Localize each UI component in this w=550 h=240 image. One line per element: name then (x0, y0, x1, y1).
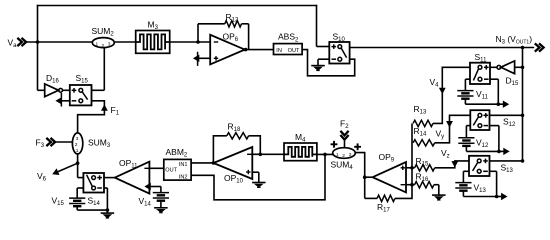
wire OP11 plus input with arrow (144, 183, 161, 190)
wire V14 to ground (160, 201, 162, 208)
wire OP9 plus to R15 (406, 167, 415, 169)
wire OP9 output stub (365, 176, 373, 178)
wire S12 output to rail (490, 114, 523, 116)
wire R16 to ground (434, 185, 439, 195)
node N3 (Vout1) output (496, 34, 544, 52)
wire ABM2 IN2 loop to M4 output (191, 155, 325, 200)
wire right rail (522, 48, 524, 161)
wire rail drop to S10 (317, 5, 330, 47)
wire ABM2 out to OP11 (149, 167, 163, 169)
node junction OP9 inverting (410, 183, 414, 187)
wire S13 output to rail (490, 160, 523, 162)
svg-text:IN2: IN2 (179, 174, 188, 180)
svg-text:2: 2 (342, 153, 345, 159)
wire S14 lower output to ground (104, 188, 107, 213)
wire F2 to SUM4 (344, 140, 346, 148)
summer SUM2 (92, 26, 115, 49)
memristor M4 (284, 132, 317, 161)
multiplier ABM2 (164, 147, 191, 181)
op-amp U OP9 (373, 152, 406, 192)
wire V15 to ground (77, 206, 107, 210)
node F3 input (36, 138, 56, 150)
ground S14 (101, 213, 115, 218)
battery V12 (458, 138, 489, 150)
wire SUM3 node to S14 (78, 177, 84, 179)
wire OP9 inverting to R16 (406, 184, 415, 186)
wire S12 lower output down (490, 126, 499, 152)
wire S11 to battery V11 (465, 79, 470, 90)
wire S10 minus to ground (318, 59, 329, 65)
wire S13 to battery V13 (463, 171, 469, 182)
svg-text:IN: IN (276, 48, 282, 54)
ground S10 (311, 66, 325, 71)
wire S15 minus stub with arrow (55, 93, 69, 107)
resistor R17 (365, 185, 412, 214)
battery V15 (52, 196, 86, 208)
ground V14 (154, 208, 168, 213)
wire D15 to rail (515, 66, 523, 68)
op-amp U OP11 (115, 158, 150, 194)
node junction M3 output (196, 40, 200, 44)
svg-text:IN1: IN1 (179, 162, 188, 168)
summer SUM3 (72, 133, 110, 154)
diode D15 (497, 61, 519, 87)
switch S11 (470, 52, 490, 84)
svg-text:1: 1 (336, 152, 339, 158)
wire R13 to S11 (V4) (433, 67, 470, 123)
resistor R15 (415, 156, 435, 171)
node junction V6 (76, 161, 80, 165)
node junction OP9 output (363, 175, 367, 179)
wire OP6 noninverting stub with arrow (193, 52, 210, 66)
wire OP11 plus to battery V14 (160, 187, 162, 193)
node V11 arrow marker (498, 101, 509, 108)
wire V13 to arrow node (463, 191, 496, 197)
wire SUM4 output down to OP9 (355, 153, 364, 199)
memristor M3 (136, 20, 170, 54)
wire left rail Va branch (37, 5, 39, 91)
node junction S14 ground (106, 208, 110, 212)
node junction V12 (497, 150, 501, 154)
wire D16 to S15 (63, 89, 70, 91)
wire S15 output up to SUM2 (92, 48, 105, 91)
svg-text:3: 3 (76, 136, 79, 142)
wire V12 to arrow node (466, 146, 499, 152)
node junction V13 (495, 195, 499, 199)
node junction Va rail (36, 40, 40, 44)
resistor R13 (413, 104, 433, 127)
node F1 arrow (101, 104, 120, 116)
switch S12 (470, 110, 516, 130)
svg-text:OUT: OUT (165, 167, 177, 173)
node OP6 output (244, 48, 248, 52)
svg-text:OUT: OUT (288, 48, 300, 54)
wire R14 to S12 (Vy) (435, 115, 471, 143)
node V6 arrow (37, 163, 78, 182)
battery V14 (139, 193, 170, 208)
battery V11 (457, 89, 488, 101)
ground OP10 (252, 183, 265, 188)
node junction V11 (497, 102, 501, 106)
node junction S12 rail (521, 114, 525, 118)
wire SUM2 to M3 (114, 41, 135, 43)
switch S13 (469, 156, 514, 176)
wire S12 to battery V12 (466, 126, 470, 138)
resistor R12 (198, 12, 249, 50)
svg-text:3: 3 (349, 152, 352, 158)
node F2 input (340, 119, 349, 140)
switch S14 (83, 173, 104, 207)
wire ABM2 IN1 to OP10 output (191, 162, 213, 164)
battery V13 (455, 183, 486, 195)
wire OP10 inverting to M4 (252, 153, 284, 155)
svg-text:1: 1 (96, 41, 99, 47)
node Va input (8, 38, 27, 50)
ground R16 (432, 195, 446, 200)
node junction M4 output (323, 153, 327, 157)
wire M3 to OP6 inverting input (170, 41, 211, 43)
node V4 arrow (430, 77, 446, 94)
wire F3 to SUM3 (55, 141, 72, 143)
wire R15 to S13 (Vz) (435, 161, 469, 168)
wire ABS2 output loop to S10 (302, 50, 355, 76)
wire SUM3 to S14 node (77, 154, 79, 178)
op-amp U OP6 (210, 32, 245, 65)
svg-text:2: 2 (75, 142, 78, 148)
svg-text:1: 1 (76, 148, 79, 154)
wire S14 to battery V15 (77, 188, 83, 198)
wire top rail (37, 5, 317, 7)
node Vy arrow (436, 121, 453, 140)
node junction R18 OP10 inverting (259, 153, 263, 157)
abs block ABS2 (274, 32, 303, 55)
wire V11 to arrow node (465, 99, 498, 105)
wire M4 to SUM4 (317, 153, 333, 155)
node junction D15 rail (521, 66, 525, 70)
wire resistor bus (411, 123, 413, 184)
diode D16 (45, 73, 63, 97)
node Vz arrow (441, 148, 458, 168)
svg-text:3: 3 (108, 41, 111, 47)
wire S15 lower port to SUM3 node F1 (78, 101, 105, 134)
switch S15 (70, 73, 92, 105)
wire Va to SUM2 (26, 41, 93, 43)
wire S11 output to D15 (490, 66, 497, 68)
op-amp U OP10 (213, 147, 252, 185)
wire OP11 output to S14 (104, 177, 116, 179)
wire S11 lower output down (490, 79, 498, 104)
wire S10 output to N3 (350, 47, 535, 49)
resistor R18 (213, 122, 260, 163)
resistor R16 (415, 172, 434, 188)
wire rail to D16 (38, 89, 45, 91)
node junction N3 rail (521, 46, 525, 50)
wire OP6 output to ABS2 (245, 49, 274, 51)
node V13 arrow marker (497, 193, 508, 200)
resistor R14 (413, 126, 435, 146)
summer SUM4 (331, 141, 362, 171)
node V12 arrow marker (499, 148, 510, 155)
node junction OP9 plus (410, 166, 414, 170)
node junction OP10 output (212, 161, 216, 165)
wire OP10 plus to ground (252, 172, 258, 182)
wire S13 lower output down (490, 171, 497, 196)
node junction S13 rail (521, 159, 525, 163)
switch S10 (329, 32, 349, 64)
